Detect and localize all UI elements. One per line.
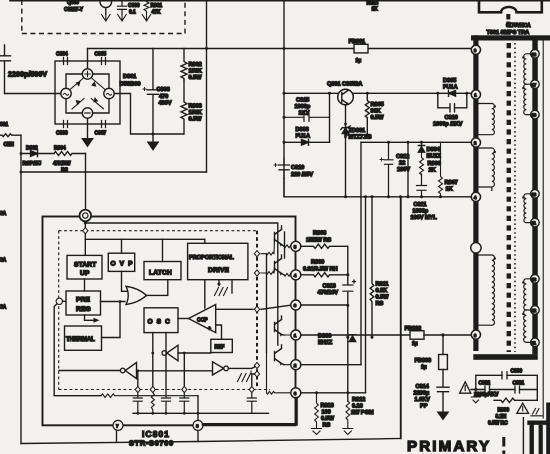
inverter (OSC drive) xyxy=(167,345,178,361)
wire: collector rail upper xyxy=(85,223,277,252)
ground (IC internal right) xyxy=(238,374,251,382)
svg-text:RS: RS xyxy=(323,423,331,429)
wire: main B+ bus xyxy=(88,48,472,50)
svg-text:CEH: CEH xyxy=(4,142,15,148)
wire: D805 loop / capacitor C816 xyxy=(438,93,467,112)
svg-text:13: 13 xyxy=(532,277,537,282)
resistor R807 xyxy=(439,142,443,197)
zener ZD801 xyxy=(341,126,350,134)
svg-text:C809: C809 xyxy=(128,3,140,9)
svg-text:C815: C815 xyxy=(296,98,309,104)
svg-text:C808: C808 xyxy=(157,87,170,93)
svg-text:6170VHCA: 6170VHCA xyxy=(506,23,531,29)
svg-text:R805: R805 xyxy=(371,102,384,108)
wire: down to IC801 pin 9 xyxy=(85,154,87,210)
wire: Q801 collector out xyxy=(353,92,438,94)
wire: pin9 stem into IC xyxy=(84,221,86,255)
resistor R809 xyxy=(301,273,348,277)
svg-text:D801: D801 xyxy=(123,74,136,80)
svg-text:R803: R803 xyxy=(189,104,202,110)
svg-text:R812: R812 xyxy=(352,397,365,403)
pin 12 (T801) xyxy=(531,306,540,315)
wire: FB802 to T801 pin6 xyxy=(424,334,472,336)
svg-text:C807: C807 xyxy=(95,131,107,137)
bridge diodes (diamond) xyxy=(70,78,105,109)
pin 2 (T801) xyxy=(471,138,480,147)
svg-text:1000p: 1000p xyxy=(295,104,311,110)
svg-text:470/16V: 470/16V xyxy=(318,290,339,296)
warning triangle (line caps) xyxy=(460,382,471,393)
pin 5 (IC801) xyxy=(291,241,301,251)
wire: Q801 emitter down xyxy=(345,105,347,197)
capacitor C811 xyxy=(417,174,427,197)
svg-text:C816: C816 xyxy=(445,115,458,121)
svg-text:0.5W: 0.5W xyxy=(189,75,203,81)
wire: IC internal ground rail xyxy=(133,412,269,414)
inverter (drive, points right) xyxy=(213,362,224,375)
svg-text:LATCH: LATCH xyxy=(149,270,172,277)
bridge ~ terminal right xyxy=(104,88,114,98)
wire: pin5 branch down (C813) xyxy=(347,246,349,401)
capacitor C815 xyxy=(284,113,330,121)
capacitor C804 (on box top edge) xyxy=(64,58,68,65)
svg-text:START: START xyxy=(74,262,97,269)
secondary winding 16-17 xyxy=(524,54,533,84)
bridge inner square xyxy=(66,74,109,113)
svg-text:FB802: FB802 xyxy=(405,326,422,332)
IC dashed boundary right edge (bold) xyxy=(256,231,258,390)
svg-text:12: 12 xyxy=(532,308,537,313)
pin 18 (T801) xyxy=(531,110,540,119)
wire: bottom feedback return xyxy=(21,197,401,444)
resistor R806 xyxy=(420,152,424,175)
svg-text:T801 SMPS TRA: T801 SMPS TRA xyxy=(487,30,530,36)
wire: feedback line from Q800 rail xyxy=(21,171,207,173)
ferrite bead FB802 xyxy=(410,331,424,339)
svg-text:470: 470 xyxy=(159,94,168,100)
capacitor 2200p/500V (left edge, clipped) xyxy=(0,45,11,94)
wire: OVP to OR xyxy=(122,271,128,291)
transistor Q (pin4 driver) xyxy=(275,255,285,275)
diode D803 xyxy=(284,139,330,145)
svg-text:O V P: O V P xyxy=(111,261,134,268)
svg-text:150K: 150K xyxy=(189,110,203,116)
resistor R801 xyxy=(144,2,149,14)
secondary section divider dashes xyxy=(502,437,505,454)
svg-text:2200p/500V: 2200p/500V xyxy=(8,72,47,79)
svg-text:R808: R808 xyxy=(313,231,326,237)
pin 9 (T801) xyxy=(471,45,480,54)
primary winding 2-4 xyxy=(479,148,495,191)
pin 16 (T801) xyxy=(531,50,540,59)
core dash stubs xyxy=(506,14,510,27)
pin 13 (T801) xyxy=(531,275,540,284)
page top edge line xyxy=(10,0,550,2)
ground (R813) xyxy=(312,429,322,435)
bridge AC+ terminal xyxy=(82,69,92,79)
svg-text:FB801: FB801 xyxy=(349,39,366,45)
svg-text:C892: C892 xyxy=(479,381,491,387)
svg-text:R809: R809 xyxy=(311,260,324,266)
pin 9 (IC801) xyxy=(80,210,92,222)
wire: C815/D803 right leg xyxy=(329,93,331,142)
svg-text:0.5W: 0.5W xyxy=(321,416,335,422)
svg-text:47K/3W: 47K/3W xyxy=(53,161,71,167)
ferrite bead FB803 xyxy=(442,335,444,355)
resistor R802 xyxy=(181,49,187,81)
wire: vertical x365.5 (pin6 riser) xyxy=(365,197,367,393)
transformer T801 bottom bar xyxy=(473,354,538,360)
node: diamonds on dashed right edge xyxy=(254,251,259,257)
wire: OCP sense to dashed edge xyxy=(216,308,253,310)
svg-text:0.16: 0.16 xyxy=(352,404,363,410)
capacitor C806 (on box bottom edge) xyxy=(64,121,68,128)
svg-text:3A: 3A xyxy=(0,211,7,217)
svg-text:C890: C890 xyxy=(511,369,523,375)
svg-text:R806: R806 xyxy=(428,161,441,167)
primary winding aux-6 xyxy=(479,255,495,325)
svg-text:3A: 3A xyxy=(0,305,7,311)
ground (R812) xyxy=(343,429,353,435)
ground (PROP DRIVE) xyxy=(218,280,220,286)
secondary winding 12-11 xyxy=(524,310,533,342)
node: diamond on dashed bottom (col5) xyxy=(249,386,254,392)
block PRE REG xyxy=(66,291,101,315)
diode D804 xyxy=(418,142,424,152)
svg-text:STR-S6709: STR-S6709 xyxy=(129,439,174,448)
svg-text:0.5W: 0.5W xyxy=(189,117,203,123)
block LATCH xyxy=(144,262,181,280)
svg-text:IC801: IC801 xyxy=(142,429,170,439)
svg-text:1μ: 1μ xyxy=(356,58,362,64)
capacitor C812 xyxy=(384,142,393,197)
wire: pin6 inside xyxy=(267,352,291,394)
svg-text:R804: R804 xyxy=(54,146,66,152)
comparator OCP xyxy=(189,305,216,333)
svg-text:1μ: 1μ xyxy=(412,341,418,347)
node: diamond on dashed bottom (col2) xyxy=(150,386,155,392)
wire: vertical x361 (pin2 riser) xyxy=(360,142,362,364)
wire: THERMAL to OR gate xyxy=(102,302,121,338)
pin 2 (IC801) xyxy=(291,360,301,370)
capacitor C805 xyxy=(102,58,106,65)
transformer T801 right bar xyxy=(532,41,538,355)
svg-text:2W PGM: 2W PGM xyxy=(351,410,374,416)
wire: pin3 sense into IC xyxy=(261,305,291,309)
ground (C809) xyxy=(118,15,127,22)
wire: pin8 stem xyxy=(197,396,199,421)
wire: vertical from Q800 area to feedback line xyxy=(206,1,208,172)
capacitor (IC soft start col5) xyxy=(247,393,256,414)
wire: thick link pin8 to pin6 xyxy=(203,398,297,424)
pin 6 (IC801) xyxy=(291,388,301,398)
svg-text:2200μ: 2200μ xyxy=(414,391,430,397)
ground (chassis, right) xyxy=(531,409,542,416)
wire: PROP DRIVE to OCP xyxy=(204,280,206,308)
diode D806 xyxy=(349,335,355,342)
wire: bridge - down to ground xyxy=(87,118,89,138)
wire: OR out to LATCH xyxy=(147,280,168,296)
snubber dashed enclosure (top-left) xyxy=(22,0,185,34)
node: bus junctions xyxy=(205,47,208,50)
transformer T801 top bar xyxy=(471,35,550,40)
svg-text:FB803: FB803 xyxy=(415,358,432,364)
wire: bridge right to C808 branch xyxy=(114,94,183,135)
bridge rectifier D801 outer box xyxy=(55,61,120,124)
resistor R805 xyxy=(346,93,370,135)
svg-text:PROPORTIONAL: PROPORTIONAL xyxy=(189,255,234,261)
svg-text:10: 10 xyxy=(532,192,537,197)
svg-text:REG: REG xyxy=(76,306,91,313)
svg-text:3A: 3A xyxy=(0,258,7,264)
wire: bridge + up to bus xyxy=(87,49,89,69)
svg-text:17: 17 xyxy=(532,82,537,87)
pin 4 (IC801) xyxy=(291,270,301,280)
svg-text:DRIVE: DRIVE xyxy=(208,267,230,274)
svg-text:801: 801 xyxy=(0,122,8,128)
wire: vertical x408 xyxy=(407,142,409,197)
wire: pin6 out xyxy=(301,392,366,394)
ground (R801) xyxy=(142,15,151,22)
svg-text:18: 18 xyxy=(532,113,537,118)
svg-text:0.5W RC: 0.5W RC xyxy=(488,421,508,427)
block OVP xyxy=(108,253,134,271)
svg-text:C812: C812 xyxy=(396,154,409,160)
capacitor (IC timing col1) xyxy=(133,393,142,414)
ground (Q800 emitter) xyxy=(102,15,111,22)
wire: left edge input with small resistor xyxy=(0,134,21,137)
svg-text:FU1A: FU1A xyxy=(443,85,457,91)
capacitor C807 xyxy=(102,121,106,128)
svg-text:D5SB60: D5SB60 xyxy=(120,82,141,88)
resistor R803 xyxy=(181,80,187,134)
primary winding 1-2 xyxy=(479,104,495,135)
wire: Q801 base rail xyxy=(284,92,338,94)
svg-text:R802: R802 xyxy=(189,62,202,68)
block START UP xyxy=(67,255,102,279)
IC U801 outer box xyxy=(43,217,296,426)
wire: base feeds with resistors xyxy=(261,237,275,255)
wire: pin2 out xyxy=(301,364,361,366)
bridge ~ terminal left xyxy=(61,88,71,98)
svg-text:400V: 400V xyxy=(159,101,172,107)
transistor Q (pin5 driver) xyxy=(275,226,285,246)
svg-text:R813: R813 xyxy=(321,403,334,409)
wire: primary return rail xyxy=(284,178,472,197)
svg-text:C810: C810 xyxy=(291,165,304,171)
block PROPORTIONAL DRIVE xyxy=(188,243,248,279)
secondary winding 13-12 xyxy=(524,279,533,310)
svg-text:1μ: 1μ xyxy=(421,365,427,371)
block REF xyxy=(211,339,233,352)
resistor R813 xyxy=(315,393,319,428)
pin 17 (T801) xyxy=(531,80,540,89)
resistor (IC timing col2) xyxy=(151,393,154,414)
pin 11b (T801) xyxy=(531,338,540,347)
svg-text:1000p /1KV: 1000p /1KV xyxy=(433,122,463,128)
wire: pin1 connection to T801 xyxy=(467,92,472,94)
wire: vertical x400.5 to bottom xyxy=(400,197,402,439)
page corner black strip xyxy=(546,403,550,454)
svg-text:1.6KV: 1.6KV xyxy=(415,397,431,403)
wire: pin3 to branch xyxy=(301,304,348,306)
svg-text:R801: R801 xyxy=(151,3,163,9)
svg-text:PP: PP xyxy=(420,404,428,410)
svg-text:FU1A: FU1A xyxy=(296,134,310,140)
svg-text:EU1Z: EU1Z xyxy=(427,154,442,160)
secondary winding 10-11 xyxy=(524,194,532,223)
pin 11 (T801) xyxy=(531,218,540,227)
svg-text:C814: C814 xyxy=(416,384,430,390)
wire: AC input to bridge xyxy=(5,93,61,95)
pin 10 (T801) xyxy=(531,190,540,199)
svg-text:1000p: 1000p xyxy=(413,209,429,215)
warning triangle (bleeder) xyxy=(517,403,529,413)
svg-text:1K: 1K xyxy=(446,187,454,193)
svg-text:C813: C813 xyxy=(323,284,336,290)
svg-text:OCP: OCP xyxy=(197,318,208,324)
capacitor (IC timing col3) xyxy=(162,390,171,414)
svg-text:R890: R890 xyxy=(498,408,510,414)
capacitor (IC timing col4) xyxy=(180,393,189,414)
svg-text:30K: 30K xyxy=(371,109,382,115)
svg-text:15/2W RS: 15/2W RS xyxy=(306,238,331,244)
svg-text:C805: C805 xyxy=(95,52,107,58)
svg-text:100V: 100V xyxy=(397,167,410,173)
wire: OSC bottom taps xyxy=(153,333,166,390)
node: diamond on dashed bottom (col4) xyxy=(182,386,187,392)
wire: IC internal supply bus xyxy=(85,238,205,240)
wire: tap up to IC pin 8 xyxy=(197,431,199,442)
capacitor C892 xyxy=(485,386,490,393)
resistor (internal, node line) xyxy=(101,394,198,398)
capacitor C814 xyxy=(437,370,449,412)
svg-text:D805: D805 xyxy=(443,78,456,84)
capacitor C891 xyxy=(515,386,520,393)
IC inner dashed boundary xyxy=(59,231,270,390)
svg-text:47K: 47K xyxy=(152,10,161,16)
transformer core (dashed) xyxy=(507,43,511,352)
pin 6 (T801) xyxy=(471,330,480,339)
svg-text:+: + xyxy=(208,326,211,332)
wire: node down along inside left xyxy=(54,304,101,396)
svg-text:22: 22 xyxy=(399,161,405,167)
ground (C808) xyxy=(148,142,159,150)
node: circle on dashed edge (pin feedback) xyxy=(56,298,62,304)
svg-text:2K: 2K xyxy=(429,168,437,174)
transistor Q801 xyxy=(338,89,354,105)
svg-text:D804: D804 xyxy=(427,147,441,153)
svg-text:1KV: 1KV xyxy=(299,111,310,117)
pin blank (T801) xyxy=(471,243,481,253)
resistor R808 xyxy=(301,244,348,248)
svg-text:ZD801: ZD801 xyxy=(349,128,366,134)
svg-text:R811: R811 xyxy=(376,282,389,288)
svg-text:REF: REF xyxy=(215,345,225,351)
svg-text:PRIMARY: PRIMARY xyxy=(407,438,491,454)
svg-text:0.5W: 0.5W xyxy=(376,295,390,301)
svg-text:0.91/0.5W RH: 0.91/0.5W RH xyxy=(303,267,338,273)
transistor cluster collector rails xyxy=(267,232,285,352)
inverter (feedback, points left) xyxy=(125,363,136,379)
OR gate U801a xyxy=(126,286,147,304)
transistor Q (pin1 output) xyxy=(275,316,285,335)
pin 1 (IC801) xyxy=(291,330,301,340)
capacitor C808 xyxy=(147,49,159,142)
svg-text:220 /25V: 220 /25V xyxy=(291,172,313,178)
transistor Q800 xyxy=(100,0,112,8)
block THERMAL xyxy=(65,326,102,350)
svg-text:UP: UP xyxy=(80,270,90,277)
secondary winding 17-18 xyxy=(524,84,533,114)
svg-text:100: 100 xyxy=(322,410,331,416)
svg-text:C811: C811 xyxy=(414,202,427,208)
resistor R804 xyxy=(54,152,86,156)
node: diamond on dashed edge (pin9) xyxy=(83,228,88,234)
ground (Y-cap) xyxy=(471,390,480,403)
resistor R811 xyxy=(370,197,374,337)
wire: tap up to IC pin 7 xyxy=(116,431,118,442)
svg-text:1K: 1K xyxy=(372,7,379,13)
resistor R812 xyxy=(346,401,350,428)
transformer T801 top component box (clipped) xyxy=(479,0,542,12)
svg-text:16: 16 xyxy=(532,52,537,57)
node: diamond on dashed bottom (col1) xyxy=(135,386,140,392)
capacitor C813 xyxy=(343,280,356,291)
svg-text:100V MYL: 100V MYL xyxy=(411,215,438,221)
wire: down to D802 row and feedback rail xyxy=(20,135,22,443)
svg-text:Q800: Q800 xyxy=(67,0,79,6)
svg-text:6.8K: 6.8K xyxy=(376,288,389,294)
svg-text:RS: RS xyxy=(376,301,384,307)
resistor R890 xyxy=(494,390,537,403)
wire: pin2 line xyxy=(361,141,472,143)
svg-text:8.2M: 8.2M xyxy=(496,414,507,420)
capacitor C890 xyxy=(502,372,507,379)
ferrite bead FB801 xyxy=(354,44,368,53)
svg-text:PRE: PRE xyxy=(76,297,91,304)
pin 8 (IC801) xyxy=(193,420,203,430)
wire: OCP to REF xyxy=(216,325,222,339)
svg-text:C891: C891 xyxy=(513,381,525,387)
svg-text:C3227-Y: C3227-Y xyxy=(64,7,84,13)
svg-text:Q801 C3852A: Q801 C3852A xyxy=(327,82,362,88)
capacitor C810 xyxy=(279,158,290,178)
svg-text:C804: C804 xyxy=(56,52,68,58)
wire: emitter resistors to pins xyxy=(284,245,296,248)
svg-text:150K: 150K xyxy=(189,69,203,75)
pin 1 (T801) xyxy=(471,90,480,99)
block OSC xyxy=(144,308,178,333)
svg-text:THERMAL: THERMAL xyxy=(66,337,95,343)
svg-text:R807: R807 xyxy=(445,180,458,186)
svg-text:0.5W: 0.5W xyxy=(371,115,385,121)
svg-text:0.1: 0.1 xyxy=(129,10,136,16)
wire: vertical rail to Q801 base network xyxy=(283,1,285,197)
diode D802 xyxy=(21,151,54,157)
svg-text:O S C: O S C xyxy=(148,319,171,326)
secondary-side component box (clipped) xyxy=(530,421,550,425)
svg-text:C806: C806 xyxy=(56,131,68,137)
diode D805 xyxy=(438,90,467,96)
ground (C814) xyxy=(438,412,449,420)
ground (bridge) xyxy=(82,139,93,147)
wire: PRE REG out to OR gate xyxy=(101,301,125,303)
transformer T801 left bar xyxy=(473,35,478,351)
svg-text:D802: D802 xyxy=(26,146,38,152)
wire: pin1 to FB802 xyxy=(301,334,410,336)
wire: Y-cap network xyxy=(471,375,537,389)
